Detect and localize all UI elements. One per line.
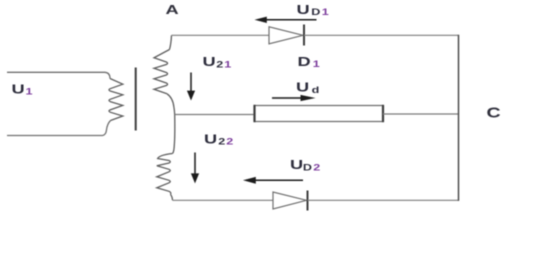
arrow U_d <box>272 95 316 101</box>
svg-text:1: 1 <box>313 60 320 70</box>
diode D1 cathode bar <box>303 25 305 46</box>
arrow U21 <box>187 73 195 101</box>
svg-text:D: D <box>303 163 312 173</box>
wire D1 to right rail <box>304 34 459 36</box>
wire bottom: coil to D2 <box>173 199 274 201</box>
label U21 <box>203 55 232 69</box>
diode D2 cathode bar <box>307 191 309 211</box>
arrow U_D1 <box>255 17 317 23</box>
svg-text:U: U <box>296 81 309 95</box>
wire center tap <box>167 94 175 154</box>
label U22 <box>204 133 233 147</box>
label U_D2 <box>290 158 320 172</box>
svg-text:U: U <box>203 55 216 69</box>
arrow U22 <box>191 153 199 184</box>
svg-text:U: U <box>204 133 217 147</box>
wire secondary upper lead <box>170 35 172 49</box>
svg-text:1: 1 <box>26 87 33 97</box>
transformer core <box>135 68 137 131</box>
inductor secondary lower U22 <box>157 154 173 195</box>
svg-text:1: 1 <box>224 60 231 70</box>
label U1 <box>12 83 33 97</box>
svg-text:2: 2 <box>313 163 320 173</box>
wire primary top lead <box>7 72 110 78</box>
diode D1 <box>269 27 303 44</box>
svg-text:U: U <box>290 158 303 172</box>
resistor load <box>255 106 384 122</box>
diode D2 <box>273 192 307 209</box>
label U_D1 <box>297 3 329 17</box>
resistor left end bar <box>253 105 255 122</box>
svg-text:1: 1 <box>322 8 329 18</box>
wire lower coil to bottom <box>171 195 173 201</box>
label D1 <box>298 55 320 70</box>
wire top: A to D1 <box>172 34 270 36</box>
label U_d <box>296 81 319 95</box>
inductor primary winding <box>109 79 123 121</box>
svg-text:C: C <box>487 104 501 121</box>
svg-text:U: U <box>12 83 25 97</box>
svg-text:2: 2 <box>218 137 225 147</box>
wire middle: center tap to resistor <box>175 114 254 116</box>
wire primary bottom lead <box>7 121 111 136</box>
resistor right end bar <box>382 105 384 122</box>
svg-text:d: d <box>312 85 320 95</box>
wire resistor to right rail <box>383 113 459 115</box>
svg-text:D: D <box>298 55 311 69</box>
inductor secondary upper U21 <box>154 50 170 94</box>
wire right rail <box>458 35 460 201</box>
svg-text:A: A <box>166 3 179 17</box>
svg-text:D: D <box>311 8 320 18</box>
svg-text:2: 2 <box>226 137 233 147</box>
svg-text:2: 2 <box>216 60 223 70</box>
wire D2 to right rail <box>308 199 459 201</box>
svg-text:U: U <box>297 3 310 17</box>
arrow U_D2 <box>243 177 303 184</box>
